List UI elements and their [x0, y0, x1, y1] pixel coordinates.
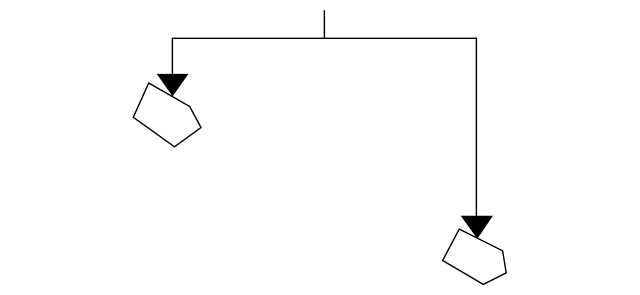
node B: right pentagon: [443, 229, 507, 284]
wire: right branch vertical drop: [475, 38, 477, 217]
wire: horizontal branch bar: [172, 37, 476, 39]
wire: root stub from top: [323, 10, 325, 38]
arrowhead into node B: [461, 216, 492, 238]
arrowhead into node A: [157, 74, 188, 96]
node A: left pentagon: [133, 83, 201, 147]
wire: left branch vertical drop: [171, 38, 173, 75]
